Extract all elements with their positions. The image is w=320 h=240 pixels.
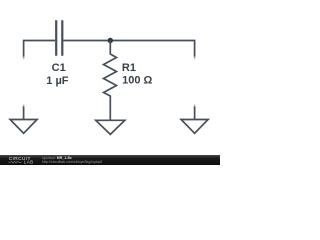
ground (middle) triangle [96,120,125,134]
svg-text:LAB: LAB [24,160,34,165]
node A junction dot [108,38,113,43]
svg-text:http://circuitlab.com/c6mye3kg: http://circuitlab.com/c6mye3kg2xpbp8 [42,160,102,164]
ground (right) triangle [181,120,208,134]
ground (left) stub fade tip [23,104,25,106]
wire left fade tail [23,57,25,59]
ground (right) lead stub [194,106,196,119]
wire top-left segment and left vertical wire [24,41,55,57]
wire top-right segment and right vertical wire [63,41,194,57]
svg-text:1 µF: 1 µF [46,75,69,87]
svg-text:100 Ω: 100 Ω [122,74,152,86]
ground (right) stub fade tip [194,104,196,106]
ground (left) triangle [10,120,37,134]
CircuitLab logo resistor squiggle [9,161,22,163]
svg-text:C1: C1 [52,62,66,74]
wire right fade tail [194,57,196,59]
svg-text:R1: R1 [122,62,136,74]
resistor R1 (vertical zigzag) with leads [104,41,117,121]
ground (left) lead stub [23,106,25,119]
capacitor C1 plates [56,20,62,55]
